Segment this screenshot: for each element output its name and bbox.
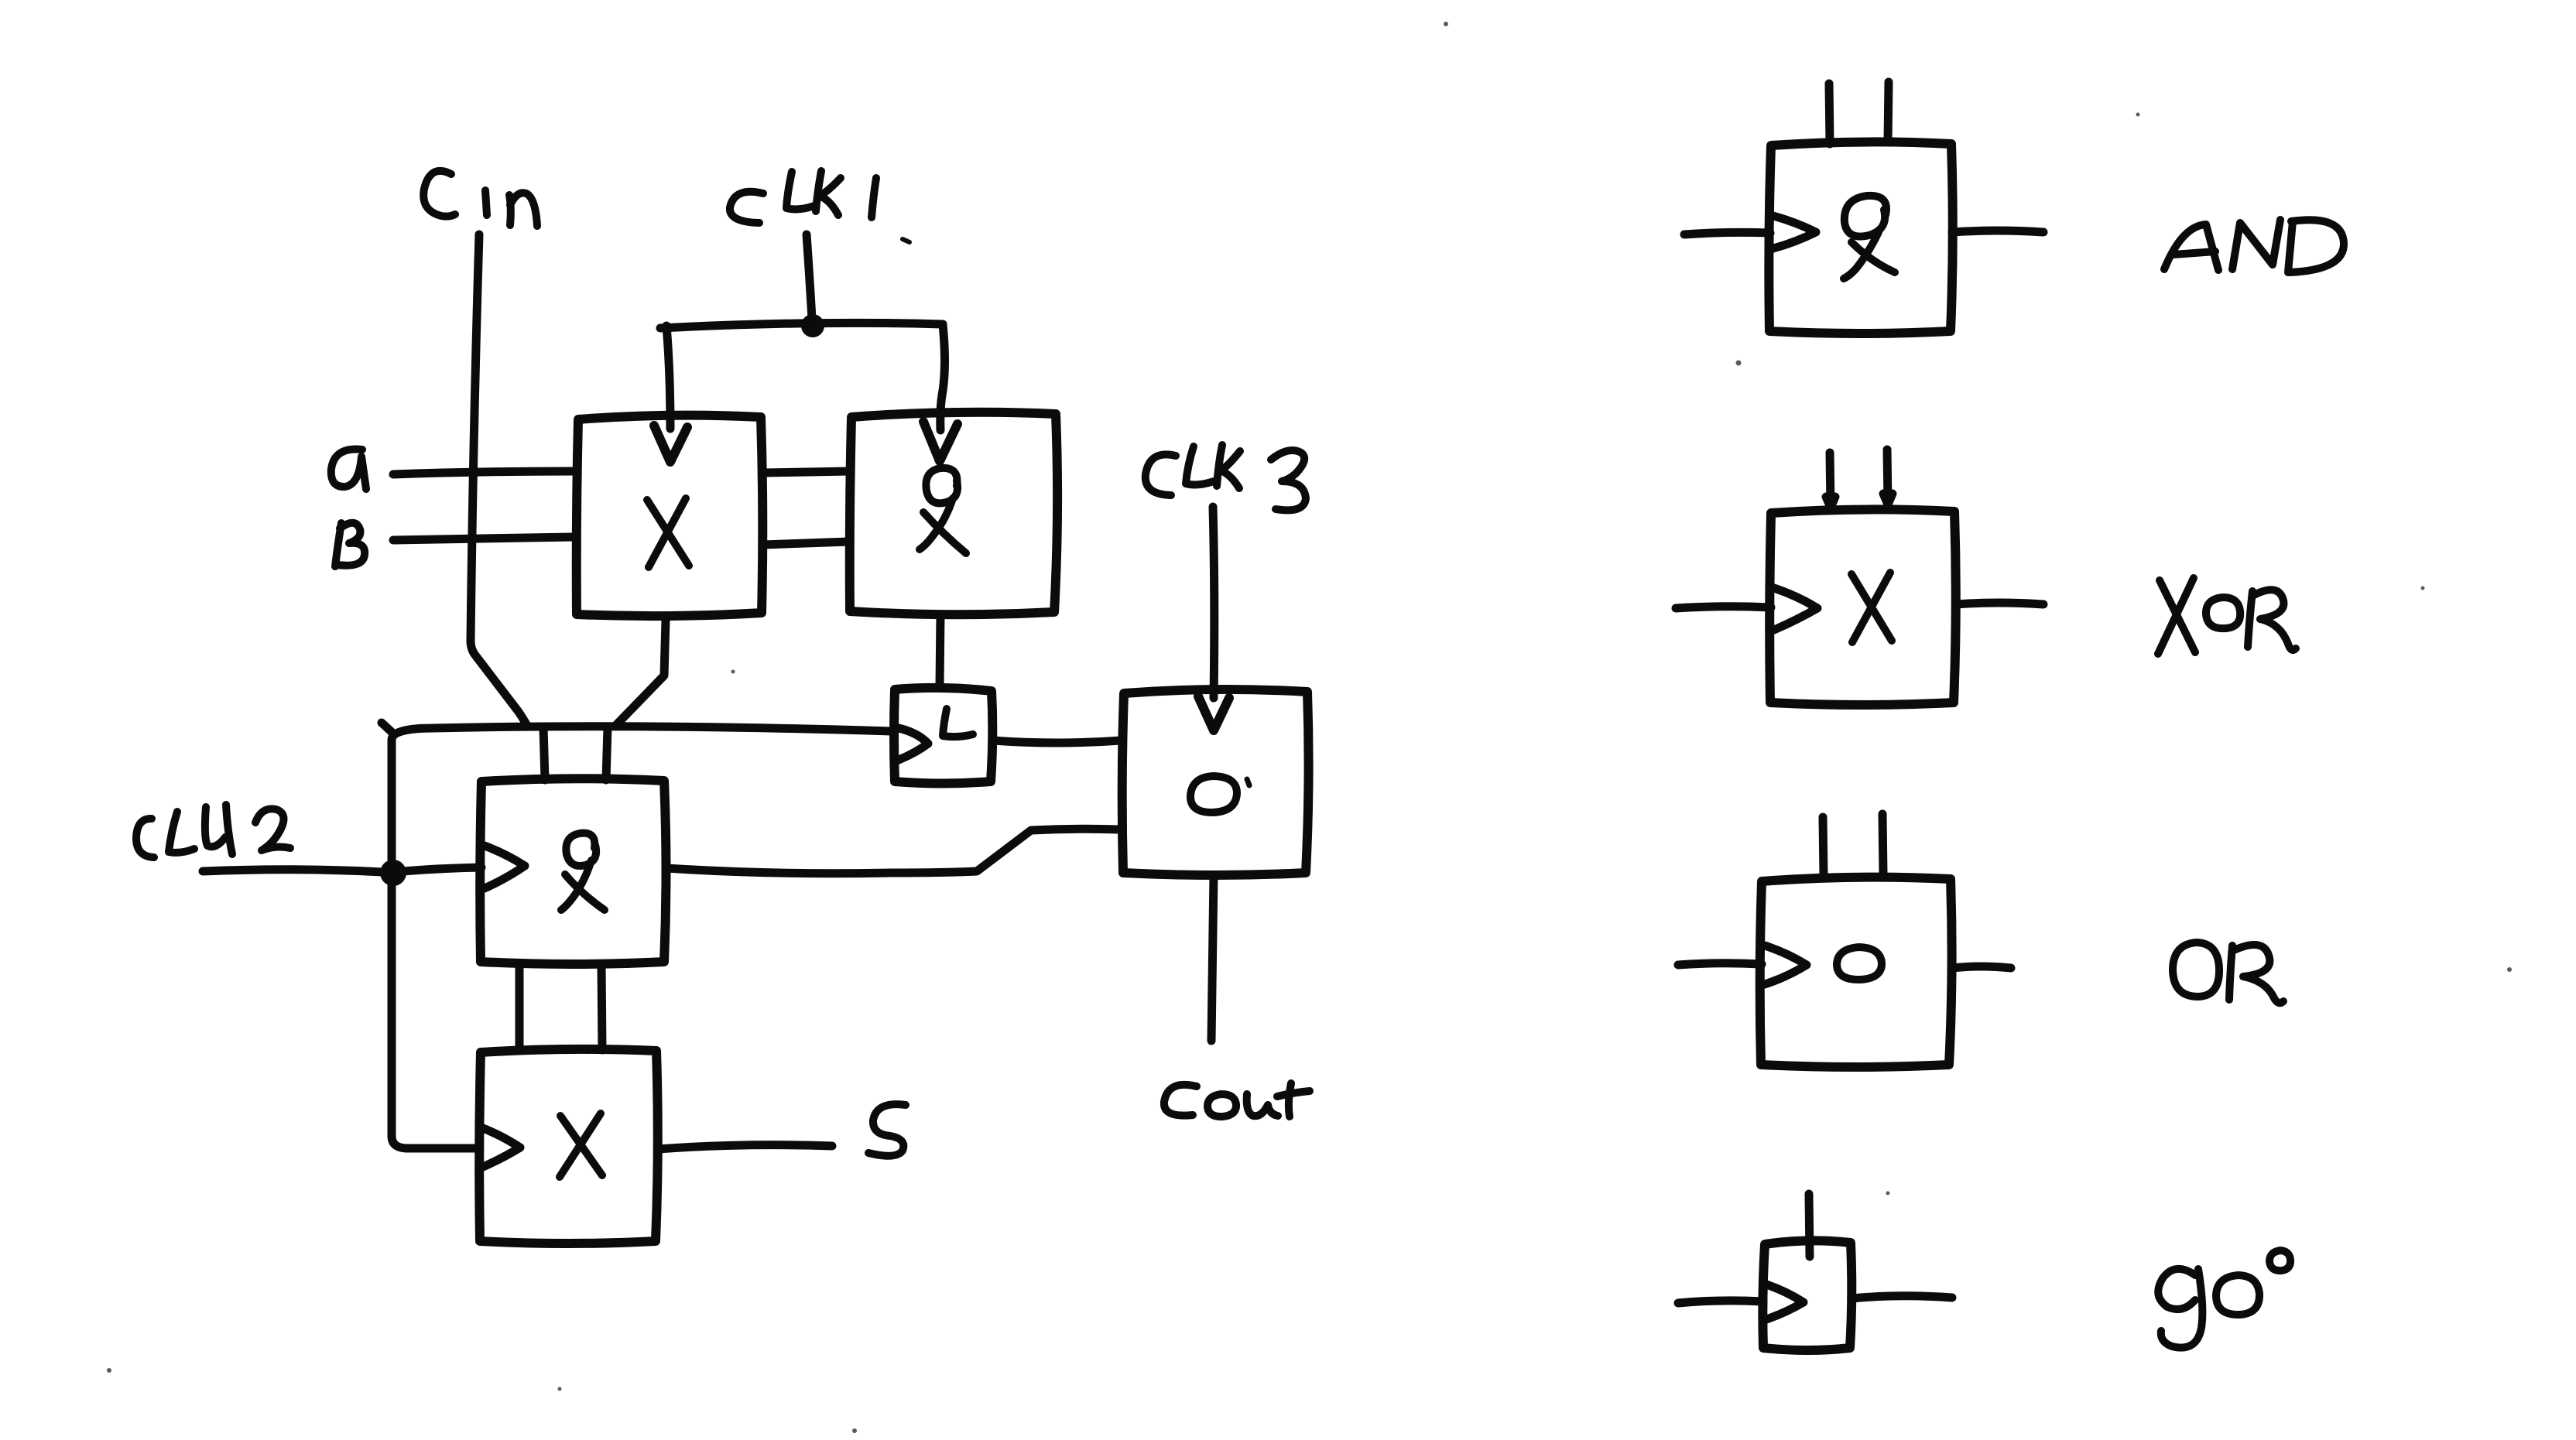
wire funnel right stub — [606, 727, 608, 780]
wire U1-U2 upper — [763, 471, 849, 473]
OR clock tick left — [1823, 817, 1824, 877]
latch L1 input arrow — [899, 728, 928, 760]
XOR gate U4 box — [479, 1049, 658, 1243]
OR clock tick right — [1882, 814, 1883, 874]
wire U3-U4 left — [516, 964, 524, 1050]
90deg output wire — [1852, 1296, 1952, 1298]
AND input arrow — [1773, 216, 1816, 248]
90deg clock tick — [1809, 1194, 1810, 1257]
X glyph U1 — [647, 498, 689, 567]
wire bus and left vertical — [392, 727, 892, 1148]
wire bus corner overshoot — [382, 723, 392, 732]
label 90deg — [2158, 1250, 2290, 1348]
AND clock tick left — [1829, 84, 1830, 144]
wire A input — [393, 471, 573, 474]
wire CLK2 junction to U3 — [402, 867, 481, 871]
label XOR — [2158, 578, 2296, 654]
label CLK3 — [1146, 445, 1306, 510]
XOR clock tick right — [1883, 450, 1893, 505]
OR output wire — [1952, 966, 2011, 968]
wire CLK1 right leg — [940, 324, 945, 430]
XOR input wire — [1676, 607, 1771, 608]
label B — [335, 523, 365, 566]
90deg input wire — [1678, 1301, 1763, 1303]
OR legend box — [1760, 877, 1952, 1067]
AND input wire — [1684, 232, 1770, 234]
wire CLK3 stem — [1213, 507, 1214, 698]
label CLK2 — [136, 805, 290, 857]
wire funnel left stub — [543, 727, 545, 780]
AND gate U2 box — [850, 412, 1057, 615]
AND clock tick right — [1888, 82, 1889, 142]
wire Cin vertical — [471, 234, 526, 724]
wire U1 output diagonal — [616, 620, 666, 725]
label OR — [2173, 942, 2283, 1003]
XOR input arrow — [1774, 588, 1817, 630]
label A — [331, 450, 366, 489]
wire CLK1 left leg — [666, 326, 670, 429]
wire CLK1 horizontal — [660, 323, 943, 328]
XOR clock tick left — [1826, 453, 1835, 508]
X glyph U4 — [560, 1113, 602, 1177]
90deg input arrow — [1766, 1284, 1804, 1319]
wire U3-U4 right — [601, 964, 602, 1050]
XOR gate U1 box — [577, 416, 763, 616]
AND gate U3 box — [480, 778, 666, 964]
wire U1-U2 lower — [763, 542, 849, 545]
wire B input — [393, 537, 573, 540]
OR input arrow — [1765, 946, 1807, 984]
label AND — [2164, 220, 2344, 272]
ampersand glyph U3 — [561, 833, 605, 910]
clock notch U6 — [1198, 696, 1229, 730]
L glyph — [943, 709, 973, 737]
U4 input arrow — [483, 1128, 520, 1167]
ampersand glyph U2 — [920, 468, 966, 553]
O glyph U6 — [1190, 776, 1237, 812]
AND legend box — [1769, 142, 1952, 333]
latch L1 box — [894, 688, 992, 784]
90deg legend box — [1762, 1240, 1851, 1350]
wire Cout stem — [1211, 875, 1214, 1041]
AND ampersand glyph — [1844, 196, 1895, 279]
OR gate U6 box — [1122, 689, 1309, 875]
U3 input arrow — [485, 846, 525, 888]
AND output wire — [1952, 231, 2043, 232]
stray mark near CLK1 — [903, 239, 909, 242]
label S — [868, 1104, 906, 1156]
wire S output — [658, 1145, 832, 1149]
wire U3 output to OR — [666, 829, 1120, 874]
wire L1 to OR — [993, 741, 1121, 743]
clock notch U1 — [654, 426, 687, 462]
tick mark beside O — [1247, 779, 1249, 785]
wire U2 output down — [940, 614, 940, 686]
wire CLK2 input — [203, 870, 382, 872]
label CLK1 — [730, 171, 876, 223]
OR input wire — [1678, 963, 1762, 965]
label Cin — [423, 171, 537, 226]
clock notch U2 — [923, 422, 957, 461]
label Cout — [1164, 1083, 1310, 1117]
XOR legend box — [1769, 509, 1956, 705]
XOR output wire — [1956, 603, 2043, 604]
junction CLK1 — [801, 314, 824, 337]
XOR X glyph — [1851, 573, 1892, 642]
OR O glyph — [1837, 947, 1882, 980]
junction CLK2 — [380, 860, 406, 886]
wire CLK1 stem — [807, 234, 812, 319]
